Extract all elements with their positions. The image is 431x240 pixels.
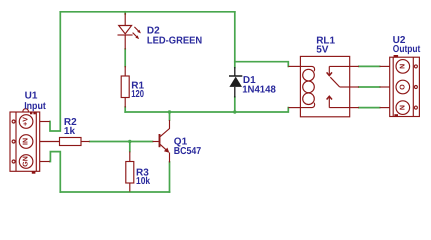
svg-text:N: N xyxy=(399,64,406,69)
wire top horizontal V+ rail xyxy=(60,11,235,13)
node junction R3 base wire xyxy=(128,140,131,143)
relay RL1 xyxy=(288,56,359,116)
resistor R2 xyxy=(60,138,90,146)
svg-text:Input: Input xyxy=(24,101,46,112)
wire bottom horizontal ground rail xyxy=(60,191,169,193)
transistor Q1 xyxy=(153,120,170,163)
connector U1 xyxy=(10,109,60,174)
svg-text:O: O xyxy=(399,84,406,90)
wire relay NC to U2 xyxy=(359,65,380,67)
wire base horizontal from R2 to Q1 xyxy=(90,141,153,143)
node junction collector mid-rail xyxy=(168,110,171,113)
svg-text:BC547: BC547 xyxy=(174,146,202,157)
svg-text:120: 120 xyxy=(131,89,144,100)
wire D1 anode link xyxy=(234,97,236,112)
wire left vertical from top rail down to V+ dogleg xyxy=(50,12,60,131)
wire relay common to U2 xyxy=(359,86,380,88)
svg-text:1k: 1k xyxy=(64,126,76,137)
node junction D1 mid-rail xyxy=(233,110,236,113)
svg-text:5V: 5V xyxy=(316,44,329,55)
LED D2 xyxy=(118,13,141,50)
svg-text:IN: IN xyxy=(23,138,30,145)
svg-text:1N4148: 1N4148 xyxy=(242,85,276,96)
wire LED cathode to R1 xyxy=(124,49,126,67)
wire D1 cathode link xyxy=(234,62,236,68)
wire LED top link xyxy=(124,12,126,14)
wire R3 top link xyxy=(129,142,131,152)
wire top rail down right side to relay coil top xyxy=(235,12,288,67)
svg-text:+V: +V xyxy=(23,117,30,126)
wire GND dogleg from U1 pin down to bottom rail xyxy=(50,152,61,192)
wire relay NO to U2 xyxy=(359,107,380,109)
svg-text:Output: Output xyxy=(393,44,421,55)
wire collector link xyxy=(169,112,171,120)
diode D1 xyxy=(229,67,242,98)
wire R1 bottom to mid rail xyxy=(124,107,126,112)
connector U2 xyxy=(380,55,420,117)
svg-text:N: N xyxy=(399,105,406,110)
wire emitter vertical xyxy=(169,162,171,192)
resistor R1 xyxy=(121,66,129,108)
resistor R3 xyxy=(126,152,134,192)
svg-text:GN: GN xyxy=(23,156,30,167)
svg-text:LED-GREEN: LED-GREEN xyxy=(147,35,202,46)
wire mid horizontal rail to relay coil bottom xyxy=(125,108,288,112)
svg-text:10k: 10k xyxy=(136,176,150,187)
